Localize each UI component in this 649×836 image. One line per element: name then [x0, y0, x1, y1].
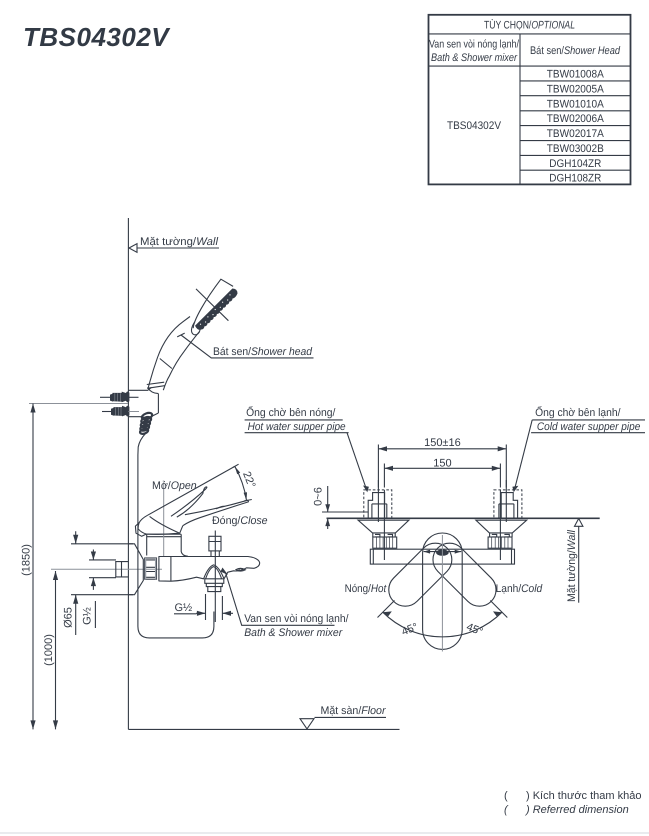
- svg-text:Van sen vòi nóng lạnh/: Van sen vòi nóng lạnh/: [244, 613, 349, 625]
- floor symbol triangle: [300, 719, 314, 729]
- body top edge emphasis: [159, 556, 247, 558]
- body arch inner line: [206, 567, 222, 579]
- left pipe elbow solid: [368, 493, 387, 518]
- right pipe dashed: [494, 490, 522, 518]
- table col header left: [429, 39, 520, 64]
- bottom separator line: [0, 832, 649, 834]
- dim 1000 extension line: [51, 568, 162, 570]
- lever cap: [138, 515, 183, 534]
- wall label text: [140, 236, 219, 248]
- body spout inner wave (outlet lens): [236, 568, 245, 571]
- 0~6 dim: [325, 486, 330, 529]
- dim 1000 line: [53, 571, 58, 729]
- shower handle: [147, 317, 199, 391]
- dim Ø65 extension lines: [71, 544, 133, 595]
- valve column and base ring: [147, 534, 188, 556]
- svg-text:Lạnh/Cold: Lạnh/Cold: [496, 583, 543, 595]
- table cell TBS04302V: [447, 120, 502, 132]
- shower hose: [138, 434, 214, 638]
- mixer label leader: [226, 573, 335, 626]
- 45 right text: [465, 621, 485, 638]
- shower head leader tick: [177, 333, 185, 337]
- svg-text:(1000): (1000): [43, 634, 55, 666]
- top view wall arrow label: [566, 519, 583, 603]
- svg-text:22°: 22°: [240, 470, 257, 490]
- G1/2 bottom text: [174, 602, 196, 614]
- left eccentric trapezoid: [358, 520, 409, 537]
- 22 deg arc: [233, 464, 252, 501]
- mixer label text: [244, 613, 349, 639]
- G1/2 bottom extension lines: [206, 594, 223, 620]
- handle pill center: [423, 533, 463, 649]
- dim Ø65 line and arrows: [73, 531, 78, 635]
- 45 left text: [400, 621, 420, 638]
- shower head leader and label: [181, 335, 314, 358]
- svg-text:0~6: 0~6: [313, 487, 325, 506]
- dim 150: [384, 458, 500, 488]
- svg-text:Ống chờ bên nóng/: Ống chờ bên nóng/: [246, 406, 336, 419]
- diverter knob: [209, 536, 221, 556]
- lever closed blade: [183, 500, 249, 525]
- right centerlines: [500, 480, 506, 560]
- wall label arrow: [129, 244, 219, 253]
- svg-text:Đóng/Close: Đóng/Close: [212, 515, 268, 527]
- hose spring guard: [139, 412, 153, 435]
- 0~6 ext line: [322, 511, 368, 513]
- svg-text:45°: 45°: [465, 621, 485, 638]
- shower head face: [195, 289, 238, 330]
- cold label: [496, 583, 543, 595]
- dim G1/2 left line and arrows: [91, 550, 96, 629]
- svg-text:Cold water supper pipe: Cold water supper pipe: [537, 421, 640, 433]
- svg-text:Ống chờ bên lạnh/: Ống chờ bên lạnh/: [535, 406, 621, 419]
- dim Ø65 text: [63, 607, 75, 628]
- body front outline: [159, 557, 260, 582]
- svg-text:Hot water supper pipe: Hot water supper pipe: [248, 421, 346, 433]
- options table: [0, 0, 649, 200]
- dim G1/2 left extension lines: [89, 560, 116, 578]
- handle pill right 45: [426, 536, 503, 613]
- close label: [212, 515, 268, 527]
- dim 150±16: [378, 437, 506, 488]
- svg-text:(1850): (1850): [21, 544, 33, 576]
- svg-text:150: 150: [433, 458, 451, 470]
- handle pill left 45: [382, 536, 459, 613]
- dim 1850 line: [30, 404, 35, 730]
- screw 2: [102, 406, 139, 417]
- table frame: [429, 15, 631, 185]
- aerator: [205, 579, 224, 592]
- svg-text:G½: G½: [175, 602, 193, 614]
- 22 deg text: [240, 470, 257, 490]
- title TBS04302V: [23, 22, 169, 53]
- hot label: [345, 583, 387, 595]
- svg-text:Ø65: Ø65: [63, 607, 75, 628]
- top view body bar: [370, 549, 514, 564]
- right knurled nut: [488, 537, 512, 548]
- svg-text:Mặt sàn/Floor: Mặt sàn/Floor: [321, 705, 387, 717]
- body inner vertical: [170, 556, 172, 581]
- G1/2 bottom dim arrows: [196, 611, 233, 616]
- svg-text:Bath & Shower mixer: Bath & Shower mixer: [244, 627, 343, 639]
- dim 1850 extension line: [29, 403, 128, 405]
- supply nipple in wall: [115, 561, 128, 577]
- table col header right: [530, 45, 621, 57]
- cold pipe leader: [512, 420, 532, 492]
- wall line front view: [127, 218, 129, 729]
- hex wall flange front: [129, 544, 144, 595]
- table title: [484, 18, 575, 31]
- floor line: [128, 728, 399, 730]
- screw 1: [100, 391, 139, 402]
- svg-text:Bát sen/Shower head: Bát sen/Shower head: [213, 346, 313, 358]
- right pipe elbow solid: [499, 493, 518, 518]
- svg-text:Nóng/Hot: Nóng/Hot: [345, 583, 387, 595]
- open label: [152, 480, 197, 492]
- lever nose: [135, 523, 146, 537]
- dim 1850 text: [21, 544, 33, 576]
- union nut front: [145, 558, 157, 579]
- svg-text:Mở/Open: Mở/Open: [152, 480, 197, 492]
- top view centerline vertical: [441, 535, 443, 652]
- hot pipe label: [245, 406, 349, 433]
- left pipe dashed: [364, 490, 392, 518]
- cold pipe label: [531, 406, 645, 433]
- leader arrowhead on arch: [221, 568, 229, 576]
- 45 radial lines: [378, 601, 508, 618]
- knob centerline: [214, 531, 216, 623]
- right eccentric trapezoid: [476, 520, 527, 537]
- pivot dot: [424, 549, 462, 555]
- shower head cross line: [196, 289, 228, 321]
- svg-text:G½: G½: [82, 607, 94, 625]
- 0~6 text: [313, 487, 325, 506]
- shower head outline: [193, 279, 233, 328]
- svg-text:Mặt tường/Wall: Mặt tường/Wall: [566, 529, 578, 602]
- hot pipe leader: [347, 433, 369, 493]
- footer notes: [504, 790, 641, 802]
- svg-text:45°: 45°: [400, 621, 420, 638]
- left knurled nut: [373, 537, 397, 548]
- lever open blade: [171, 487, 207, 517]
- shower head hook: [191, 322, 200, 335]
- floor label: [315, 705, 387, 717]
- svg-text:Mặt tường/Wall: Mặt tường/Wall: [140, 236, 219, 248]
- table cells shower heads: [547, 69, 605, 185]
- dim 1000 text: [43, 634, 55, 666]
- left centerlines: [378, 480, 384, 560]
- handle pivot centerline: [163, 483, 165, 556]
- 45 arc: [383, 611, 502, 636]
- top view wall line: [327, 517, 600, 519]
- wall bracket: [128, 387, 158, 418]
- lever open reference line: [148, 466, 235, 515]
- svg-text:150±16: 150±16: [424, 437, 461, 449]
- dim G1/2 left text: [82, 607, 94, 625]
